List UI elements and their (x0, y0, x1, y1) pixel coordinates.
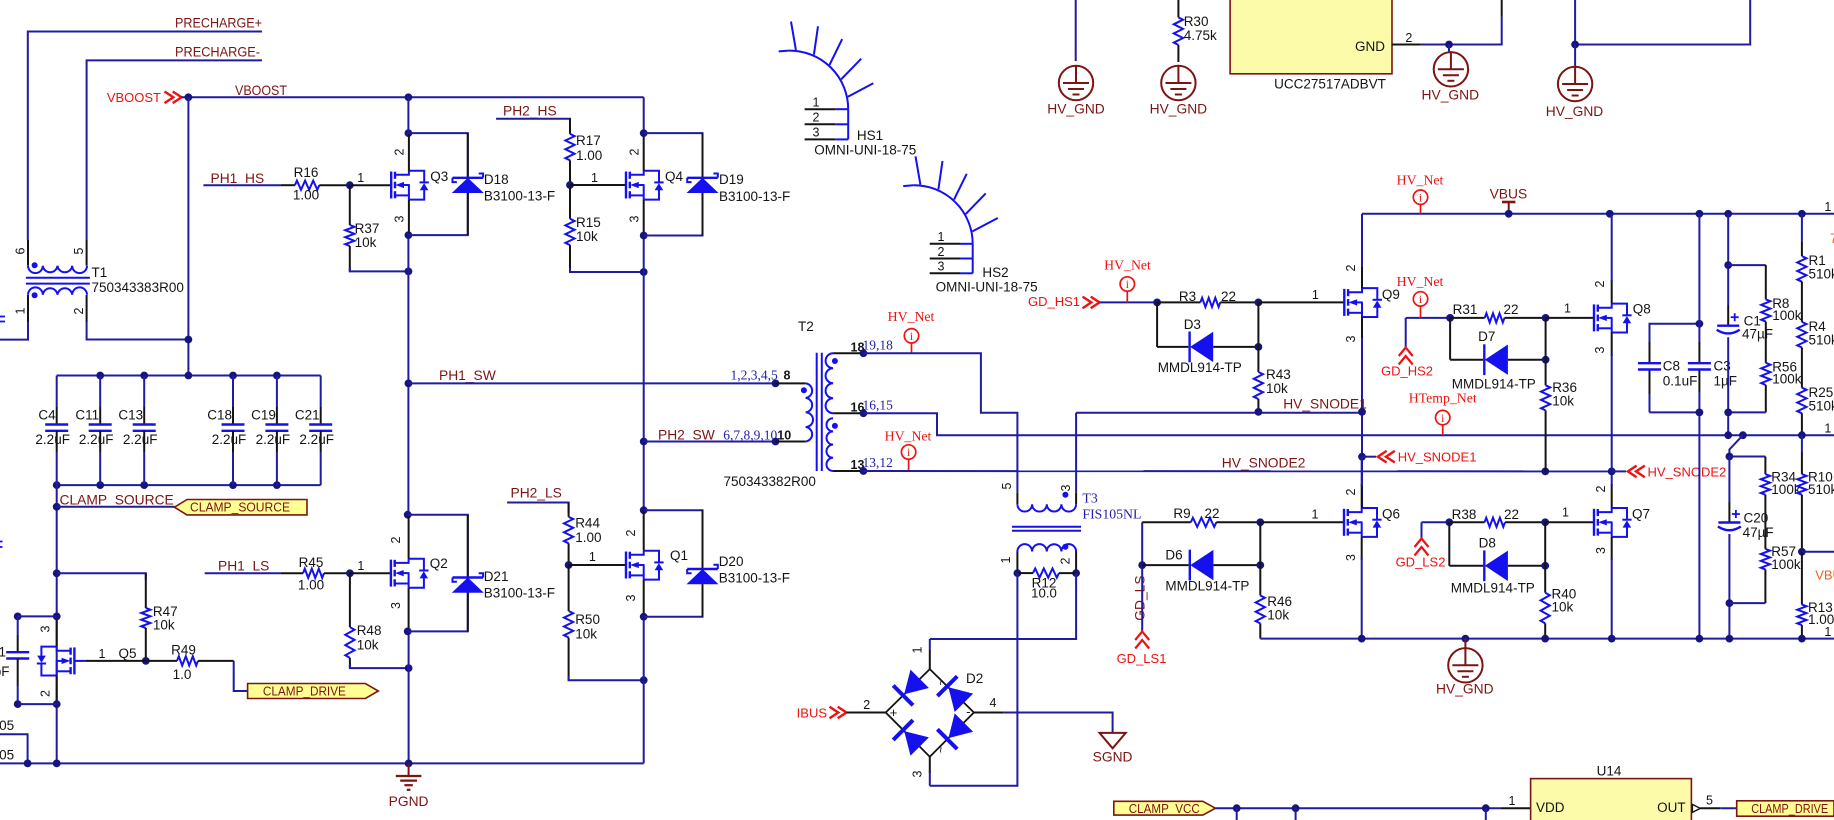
svg-text:1.0: 1.0 (173, 667, 192, 682)
wire D7 left drop (1450, 318, 1483, 360)
sheet entry CLAMP_SOURCE (174, 500, 307, 515)
capacitor C4 2.2uF (35, 376, 70, 486)
junction top rail (96, 372, 281, 380)
wire Q9 drain (1361, 214, 1363, 288)
svg-text:R38: R38 (1452, 507, 1477, 522)
resistor R15 10k (565, 185, 600, 272)
junction D6 right (1256, 561, 1264, 569)
net label PH2_SW (658, 428, 715, 443)
designator Q9 (1382, 287, 1400, 302)
svg-text:1: 1 (1562, 506, 1569, 520)
wire Q5 source pin (56, 676, 58, 705)
resistor R57 100k (1761, 530, 1801, 603)
svg-text:HV_SNODE1: HV_SNODE1 (1283, 397, 1367, 412)
junction stub A (24, 760, 32, 768)
svg-text:510k: 510k (1809, 267, 1834, 282)
pin label 1 Q3 (357, 171, 364, 185)
pin label 1 Q8 (1564, 302, 1571, 316)
label 05 fragment B (0, 748, 14, 763)
label 05 fragment A (0, 718, 14, 733)
wire vcc stub c (1485, 808, 1487, 820)
power HTemp_Net marker (1409, 391, 1477, 436)
capacitor C3 1uF (1688, 359, 1737, 389)
svg-text:10.0: 10.0 (1031, 586, 1057, 601)
junction D8 right (1541, 562, 1549, 570)
svg-text:2: 2 (72, 307, 86, 314)
junction Q5 rail/rail (53, 760, 61, 768)
wire top right net (1575, 0, 1750, 45)
junction vcc c (1482, 804, 1490, 812)
svg-text:R44: R44 (575, 516, 600, 531)
svg-text:1.00: 1.00 (293, 188, 319, 203)
pin label 3 Q2 (389, 602, 403, 609)
transformer T3 core (1012, 527, 1081, 531)
svg-text:6,7,8,9,10: 6,7,8,9,10 (723, 428, 777, 443)
svg-text:10k: 10k (1267, 608, 1289, 623)
svg-text:D3: D3 (1184, 317, 1201, 332)
svg-text:HV_GND: HV_GND (1436, 682, 1494, 697)
resistor R3 22 (1157, 289, 1258, 307)
svg-text:22: 22 (1503, 302, 1518, 317)
junction R50/rail (640, 676, 648, 684)
svg-text:MMDL914-TP: MMDL914-TP (1158, 360, 1242, 375)
junction Q3 source (405, 231, 413, 239)
junction R37/rail (405, 268, 413, 276)
wire T1 pin2 to VBOOST rail (87, 322, 189, 340)
svg-text:HV_GND: HV_GND (1150, 102, 1208, 117)
svg-text:C19: C19 (251, 408, 276, 423)
junction Q3 rail top (405, 93, 413, 137)
wire T3 pin2 to D2 pin1 (930, 573, 1076, 639)
wire C20 column bottom (1728, 534, 1730, 639)
svg-text:1: 1 (0, 644, 6, 659)
diode D18 lead (467, 133, 469, 235)
transformer T2 label (798, 319, 814, 334)
junction C3/HV_GND rail (1696, 635, 1704, 643)
wire D7 right lead (1508, 359, 1546, 361)
wire CLAMP_VCC net (1215, 807, 1500, 809)
junction R38 left (1445, 518, 1453, 526)
wire Q4 drain (643, 97, 645, 170)
svg-text:3: 3 (628, 215, 642, 222)
svg-text:1: 1 (1564, 302, 1571, 316)
svg-text:1: 1 (357, 171, 364, 185)
transformer T2 primary winding (801, 383, 813, 441)
wire pin18 to T3 pin5 (863, 353, 1017, 492)
svg-text:VBOOST: VBOOST (235, 83, 288, 98)
capacitor C1 47uF polarized (1717, 313, 1773, 341)
wire C3 column (1698, 214, 1700, 639)
svg-text:D18: D18 (484, 172, 509, 187)
wire R9-D6 right link (1259, 522, 1261, 565)
wire gate Q6 (1260, 521, 1344, 523)
wire port HV_SNODE2 stub (1612, 470, 1626, 472)
svg-text:1.00: 1.00 (298, 578, 324, 593)
junction C3 top (1696, 320, 1704, 328)
resistor R1 510k (1797, 242, 1834, 283)
svg-text:HV_Net: HV_Net (885, 429, 932, 444)
svg-text:5: 5 (1706, 794, 1713, 808)
wire R15 bottom (570, 268, 644, 272)
resistor R37 10k (345, 185, 379, 271)
wire R31 row left (1406, 317, 1450, 319)
wire IBUS SGND (1003, 713, 1112, 733)
svg-text:3: 3 (39, 625, 53, 632)
svg-text:i: i (1419, 294, 1422, 306)
pin label 2 Q6 (1344, 488, 1358, 495)
resistor R48 10k (345, 573, 381, 668)
transformer T1 core (26, 278, 90, 284)
junction Q7/rail (1608, 635, 1616, 643)
wire gate Q2 (350, 572, 391, 574)
svg-text:R17: R17 (576, 133, 601, 148)
svg-text:-: - (966, 704, 970, 719)
svg-text:VBUS: VBUS (1490, 187, 1528, 202)
capacitor C19 2.2uF (251, 376, 290, 486)
svg-text:10k: 10k (576, 229, 598, 244)
label D7 (1452, 329, 1536, 392)
junction PGND (405, 760, 413, 768)
wire Q2 source (408, 588, 410, 764)
diode D3 MMDL914-TP (1190, 332, 1214, 363)
svg-text:GD_LS2: GD_LS2 (1396, 554, 1446, 569)
transformer T1 primary winding (28, 262, 87, 273)
svg-text:1: 1 (99, 647, 106, 661)
svg-text:2.2uF: 2.2uF (123, 432, 158, 447)
net label CLAMP_SOURCE (60, 493, 174, 508)
junction cap bottom (14, 700, 61, 708)
svg-text:PRECHARGE-: PRECHARGE- (175, 45, 260, 60)
svg-text:1µF: 1µF (1714, 373, 1738, 388)
junction D6 left (1138, 561, 1146, 569)
diode D21 B3100-13-F (452, 573, 484, 593)
label snubber cap fragment (0, 644, 10, 679)
pin 5 OUT U14 (1692, 794, 1720, 813)
wire snubber cap top (18, 615, 57, 617)
svg-text:U14: U14 (1597, 763, 1622, 778)
left edge fragment blue (0, 317, 5, 548)
svg-text:T1: T1 (92, 265, 108, 280)
wire PH2_LS (507, 503, 568, 514)
transformer T1 secondary winding (28, 287, 87, 298)
label D21 (484, 569, 555, 601)
power VBUS port (1490, 187, 1528, 214)
junction PH1_SW (405, 380, 413, 388)
net label GD_LS rotated (1133, 575, 1148, 620)
wire snubber cap bottom (18, 703, 57, 705)
transformer T3 pin2 lead (1059, 552, 1077, 574)
svg-text:PH2_HS: PH2_HS (503, 104, 557, 119)
wire R3-D3 right link (1257, 302, 1259, 347)
wire D6 right lead (1213, 564, 1260, 566)
ground SGND (1093, 733, 1133, 765)
wire HV_SNODE1 port stub (1362, 456, 1376, 458)
transformer T2 pin18 lead (833, 341, 864, 355)
svg-text:T3: T3 (1082, 491, 1097, 506)
diode D20 lead (702, 510, 704, 617)
resistor R49 1.0 (146, 643, 234, 683)
svg-text:100k: 100k (1771, 557, 1801, 572)
svg-text:2.2uF: 2.2uF (299, 432, 334, 447)
svg-text:R31: R31 (1453, 302, 1478, 317)
svg-text:R43: R43 (1266, 367, 1291, 382)
pin label 2 Q1 (624, 529, 638, 536)
junction top right (1571, 41, 1579, 49)
pin label 2 Q7 (1594, 485, 1608, 492)
ground HV_GND 5 (1436, 639, 1494, 697)
net label PH1_LS (218, 559, 269, 574)
wire C8 bottom link (1650, 411, 1700, 413)
junction D3 right (1255, 343, 1263, 351)
svg-text:3: 3 (624, 594, 638, 601)
transformer T2 pin13 lead (833, 458, 864, 472)
pin label 1 Q2 (357, 559, 364, 573)
svg-text:B3100-13-F: B3100-13-F (484, 189, 555, 204)
svg-text:PH2_SW: PH2_SW (658, 428, 715, 443)
wire HV_GND rail (1260, 638, 1834, 640)
resistor R34 100k (1761, 457, 1801, 531)
svg-text:2: 2 (938, 245, 945, 259)
svg-text:C18: C18 (207, 408, 232, 423)
wire Q6 drain (1361, 457, 1363, 508)
wire bottom PGND rail (0, 762, 644, 764)
heatsink HS2 pin 3 (930, 260, 973, 274)
svg-text:2: 2 (863, 698, 870, 712)
pin label 3 Q1 (624, 594, 638, 601)
capacitor C13 2.2uF (118, 376, 157, 486)
wire Q3 drain (407, 97, 410, 170)
transformer T3 winding bottom (1017, 544, 1076, 552)
junction R12 left (1014, 569, 1022, 577)
wire R38-D8 right link (1544, 522, 1546, 566)
junction C1/R8 top (1724, 261, 1732, 269)
junction R13/HV_GND rail (1798, 635, 1806, 643)
resistor R56 100k (1761, 341, 1802, 412)
svg-text:R50: R50 (575, 612, 600, 627)
svg-text:D2: D2 (966, 671, 983, 686)
label T3 (1082, 491, 1141, 522)
svg-text:IBUS: IBUS (797, 706, 828, 721)
junction R36/HV_SNODE2 (1541, 468, 1549, 476)
transformer T2 secondary winding B (826, 418, 837, 471)
label OMNI-UNI-18-75 HS2 (936, 279, 1038, 294)
wire VBUS sense out (1802, 551, 1834, 553)
wire vcc stub b (1295, 808, 1297, 820)
svg-text:2: 2 (1594, 485, 1608, 492)
designator Q6 (1382, 507, 1400, 522)
svg-text:CLAMP_SOURCE: CLAMP_SOURCE (60, 493, 174, 508)
svg-text:3: 3 (938, 260, 945, 274)
svg-text:HV_GND: HV_GND (1546, 104, 1604, 119)
svg-text:C8: C8 (1663, 359, 1680, 374)
wire cap top rail (57, 375, 321, 377)
svg-text:PGND: PGND (389, 794, 429, 809)
svg-text:R15: R15 (576, 215, 601, 230)
svg-text:10k: 10k (575, 627, 597, 642)
junction R47 tee (53, 569, 61, 577)
svg-text:CLAMP_SOURCE: CLAMP_SOURCE (190, 500, 290, 515)
pin label 3 Q6 (1344, 554, 1358, 561)
svg-text:10k: 10k (1552, 600, 1574, 615)
label D3 (1158, 317, 1242, 375)
power HV_Net at VBUS (1397, 173, 1444, 214)
junction R9 right (1256, 518, 1264, 526)
svg-text:2.2uF: 2.2uF (212, 432, 247, 447)
svg-text:R9: R9 (1173, 506, 1190, 521)
net label HV_SNODE2 (1222, 456, 1306, 471)
wire PH1_HS (203, 184, 281, 186)
junction T2 pin18 (860, 349, 868, 357)
port HV_SNODE1 (1378, 450, 1477, 465)
power HV_Net at GD_HS1 (1104, 258, 1151, 303)
svg-text:4: 4 (990, 696, 997, 710)
svg-text:HV_Net: HV_Net (1397, 274, 1444, 289)
resistor R50 10k (564, 565, 600, 680)
svg-text:1: 1 (1824, 200, 1831, 214)
port GD_LS2 (1396, 539, 1446, 570)
wire VBOOST down to T1/caps (187, 97, 189, 375)
svg-text:10: 10 (777, 429, 791, 443)
wire Q8 source (1611, 333, 1613, 472)
junction cap top (14, 613, 61, 621)
svg-text:GD_HS1: GD_HS1 (1028, 294, 1080, 309)
svg-text:HV_SNODE2: HV_SNODE2 (1222, 456, 1306, 471)
svg-text:2: 2 (1059, 557, 1073, 564)
resistor R4 510k (1797, 282, 1834, 349)
pin label 1 Q5 (99, 647, 106, 661)
pin label 3 Q7 (1594, 547, 1608, 554)
svg-text:UCC27517ADBVT: UCC27517ADBVT (1274, 76, 1386, 91)
net label PH1_HS (211, 171, 265, 186)
wire D2 pin4 lead (974, 696, 1004, 713)
svg-text:750343382R00: 750343382R00 (724, 474, 816, 489)
heatsink HS1 pin 1 (805, 96, 849, 110)
svg-text:47µF: 47µF (1743, 525, 1774, 540)
resistor R12 10.0 (1017, 569, 1076, 601)
svg-text:1: 1 (1824, 422, 1831, 436)
wire HV_GND 3 stem (1448, 45, 1450, 53)
svg-text:HV_GND: HV_GND (1422, 87, 1480, 102)
wire C8 branch (1650, 324, 1700, 413)
svg-text:Q7: Q7 (1632, 507, 1650, 522)
designator Q8 (1633, 302, 1651, 317)
wire gate Q8 (1546, 317, 1594, 319)
wire D2 pin1 lead (911, 639, 930, 669)
wire D2 pin2 lead (847, 698, 886, 713)
svg-text:8: 8 (784, 369, 791, 383)
junction D3 left (1153, 299, 1161, 307)
junction C1/HTemp (1724, 431, 1732, 439)
svg-text:R37: R37 (355, 221, 380, 236)
label D18 (484, 172, 555, 204)
capacitor C8 0.1uF (1638, 359, 1697, 389)
wire PH1_LS (205, 572, 281, 574)
svg-text:750343383R00: 750343383R00 (92, 280, 184, 295)
bridge diode D2a (893, 670, 929, 706)
wire PH1_SW (408, 382, 775, 384)
wire D8 right lead (1508, 565, 1545, 567)
svg-text:Q5: Q5 (119, 646, 137, 661)
wire VBUS rail (1362, 213, 1834, 215)
junction T2 pin13 (860, 467, 868, 475)
junction C3 bottom (1696, 409, 1704, 417)
junction HTemp diag (1739, 431, 1747, 439)
pin label 1 right edge mid (1824, 422, 1831, 436)
svg-text:3: 3 (393, 215, 407, 222)
wire T3 pin1 to D2 pin3 (930, 573, 1018, 786)
svg-text:i: i (1126, 279, 1129, 291)
svg-text:5: 5 (1000, 482, 1014, 489)
svg-text:3: 3 (1059, 484, 1073, 491)
svg-text:VDD: VDD (1536, 800, 1565, 815)
label OMNI-UNI-18-75 HS1 (814, 143, 916, 158)
svg-text:6: 6 (14, 247, 28, 254)
svg-text:HV_Net: HV_Net (888, 309, 935, 324)
port GD_HS1 (1028, 294, 1100, 309)
transformer T2 partnumber (724, 474, 816, 489)
junction HVGND stem (1462, 635, 1470, 643)
junction Q9 source/HV_SNODE1 (1358, 408, 1366, 416)
heatsink HS2 fins (903, 156, 998, 244)
wire T1 pin1 to left edge (0, 322, 28, 340)
svg-text:PH1_HS: PH1_HS (211, 171, 265, 186)
pin label 2 Q5 (39, 690, 53, 697)
capacitor C21 2.2uF (295, 376, 334, 486)
junction T2 pin8 (772, 380, 780, 388)
wire Q5 drain pin (56, 616, 58, 646)
svg-text:GND: GND (1355, 39, 1385, 54)
svg-text:MMDL914-TP: MMDL914-TP (1451, 581, 1535, 596)
svg-text:510k: 510k (1808, 482, 1834, 497)
svg-text:1: 1 (1312, 288, 1319, 302)
svg-text:MMDL914-TP: MMDL914-TP (1452, 377, 1536, 392)
designator Q7 (1632, 507, 1650, 522)
transformer T1 pin 1 (14, 295, 29, 322)
junction VBOOST (185, 93, 193, 101)
junction Q2 rail top (404, 511, 412, 519)
transistor Q3 (391, 171, 429, 200)
svg-text:Q4: Q4 (665, 169, 684, 184)
power HV_Net at pin13 (885, 429, 932, 472)
wire R column top (1801, 214, 1803, 242)
svg-text:1: 1 (591, 171, 598, 185)
wire HV_GND 4 stem (1574, 45, 1576, 67)
resistor R9 22 (1142, 506, 1260, 527)
wire Q1 drain (643, 510, 645, 550)
op-amp U14 box (1531, 763, 1692, 820)
svg-text:2: 2 (389, 536, 403, 543)
wire Q8 drain (1611, 214, 1613, 304)
svg-text:100k: 100k (1772, 372, 1802, 387)
junction R10 mid (1798, 548, 1806, 556)
wire top HV_GND 1 (1075, 0, 1077, 61)
svg-text:PH1_LS: PH1_LS (218, 559, 269, 574)
svg-text:2: 2 (1344, 264, 1358, 271)
svg-text:PH2_LS: PH2_LS (511, 486, 562, 501)
junction T2 pin16 (860, 409, 868, 417)
wire T3 pin3 up to HV_SNODE1 (1075, 413, 1077, 493)
diode D18 B3100-13-F (452, 174, 484, 194)
rectifier D2 diamond (886, 669, 984, 757)
label D20 (719, 554, 790, 586)
svg-text:R48: R48 (357, 623, 382, 638)
net label VBOOST (235, 83, 288, 98)
svg-text:C11: C11 (75, 408, 99, 423)
svg-text:D8: D8 (1479, 536, 1496, 551)
wire PH2_SW (644, 441, 776, 443)
svg-text:D7: D7 (1478, 329, 1495, 344)
svg-text:1: 1 (938, 230, 945, 244)
